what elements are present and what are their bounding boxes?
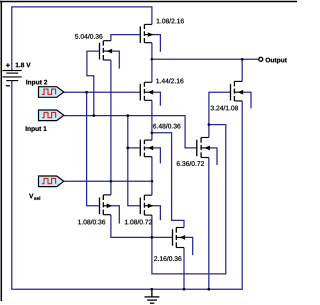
battery V1 1.8V [3,71,22,81]
wire Input1 to M5 gate [62,116,197,148]
wire M2 bulk stub [153,35,161,52]
transistor M8 3.24/1.08 [231,81,244,101]
junction dots [85,91,88,94]
wire M6 source to M9 gate [111,215,173,238]
label M7 value 1.08/0.72 [125,220,128,225]
label M8 value 3.24/1.08 [211,106,214,111]
transistor M1 5.04/0.36 [100,41,112,60]
pulse source Input 2 [39,87,64,98]
wire M5 source down to ground rail [208,158,210,290]
wire M7 source down then right and up to M5 drain node [152,125,226,274]
wire M8 bulk stub [243,92,251,108]
wire M9 source down to ground rail [183,248,185,290]
battery plus sign [6,63,10,67]
wire M1 gate jog down to Input1 [87,51,100,116]
label M6 value 1.08/0.36 [78,220,81,225]
wire battery - down left side to ground rail, rail to M8 source column [12,81,242,290]
wire M5 bulk stub [210,148,217,165]
wire Vsel to column node [62,180,152,182]
transistor M3 1.44/2.16 [140,82,153,100]
wire M4 bulk stub [153,148,161,164]
wire node up to M8 gate [209,92,231,124]
pulse source V_sel [39,176,64,187]
wire M1 source down to Vsel node and M6 drain [110,60,112,195]
label Output [266,58,271,63]
label M9 value 2.16/0.36 [154,256,157,261]
wire VDD top rail from battery + to M2 drain [12,7,152,70]
transistor M9 2.16/0.36 [173,228,185,248]
wire Input2 branch down to M6 gate [87,92,100,206]
transistor M2 1.08/2.16 [140,24,153,43]
pulse source Input 1 [39,110,64,121]
wire M7 bulk stub [153,206,161,221]
transistor M7 1.08/0.72 [140,195,153,215]
label M1 value 5.04/0.36 [75,34,78,39]
label Input 1 [25,126,28,131]
label M3 value 1.44/2.16 [156,79,159,84]
wire M9 bulk stub [185,237,193,255]
wire output node line [152,43,259,83]
window border top edge [0,1,297,3]
battery minus sign [6,85,10,87]
wire M1 drain up to M2 gate [111,35,140,41]
label M4 value 6.48/0.36 [153,124,156,129]
ground symbol [145,289,160,303]
wire M1 bulk stub [112,51,119,69]
transistor M5 6.36/0.72 [197,138,210,158]
transistor M6 1.08/0.36 [100,195,112,215]
label 1.8 V [16,63,19,68]
label M5 value 6.36/0.72 [177,161,180,166]
label V_sel [29,194,33,199]
transistor M4 6.48/0.36 [140,140,153,157]
wire branch from node to M9 drain jog [152,133,184,228]
wire M6 bulk stub [112,206,119,224]
wire M3 source down to M4 drain [151,100,153,140]
wire node down to M5 drain [208,125,210,138]
label Input 2 [25,80,28,85]
label M2 value 1.08/2.16 [157,19,160,24]
wire M4 source down to Vsel node and M7 drain [151,157,153,196]
wire Input2 to M3 gate [62,91,141,93]
wire Input1 branch down to M4 gate and M7 gate [128,116,141,206]
wire M3 bulk stub [153,92,161,106]
output port circle [259,57,263,61]
window border left edge [0,1,2,301]
